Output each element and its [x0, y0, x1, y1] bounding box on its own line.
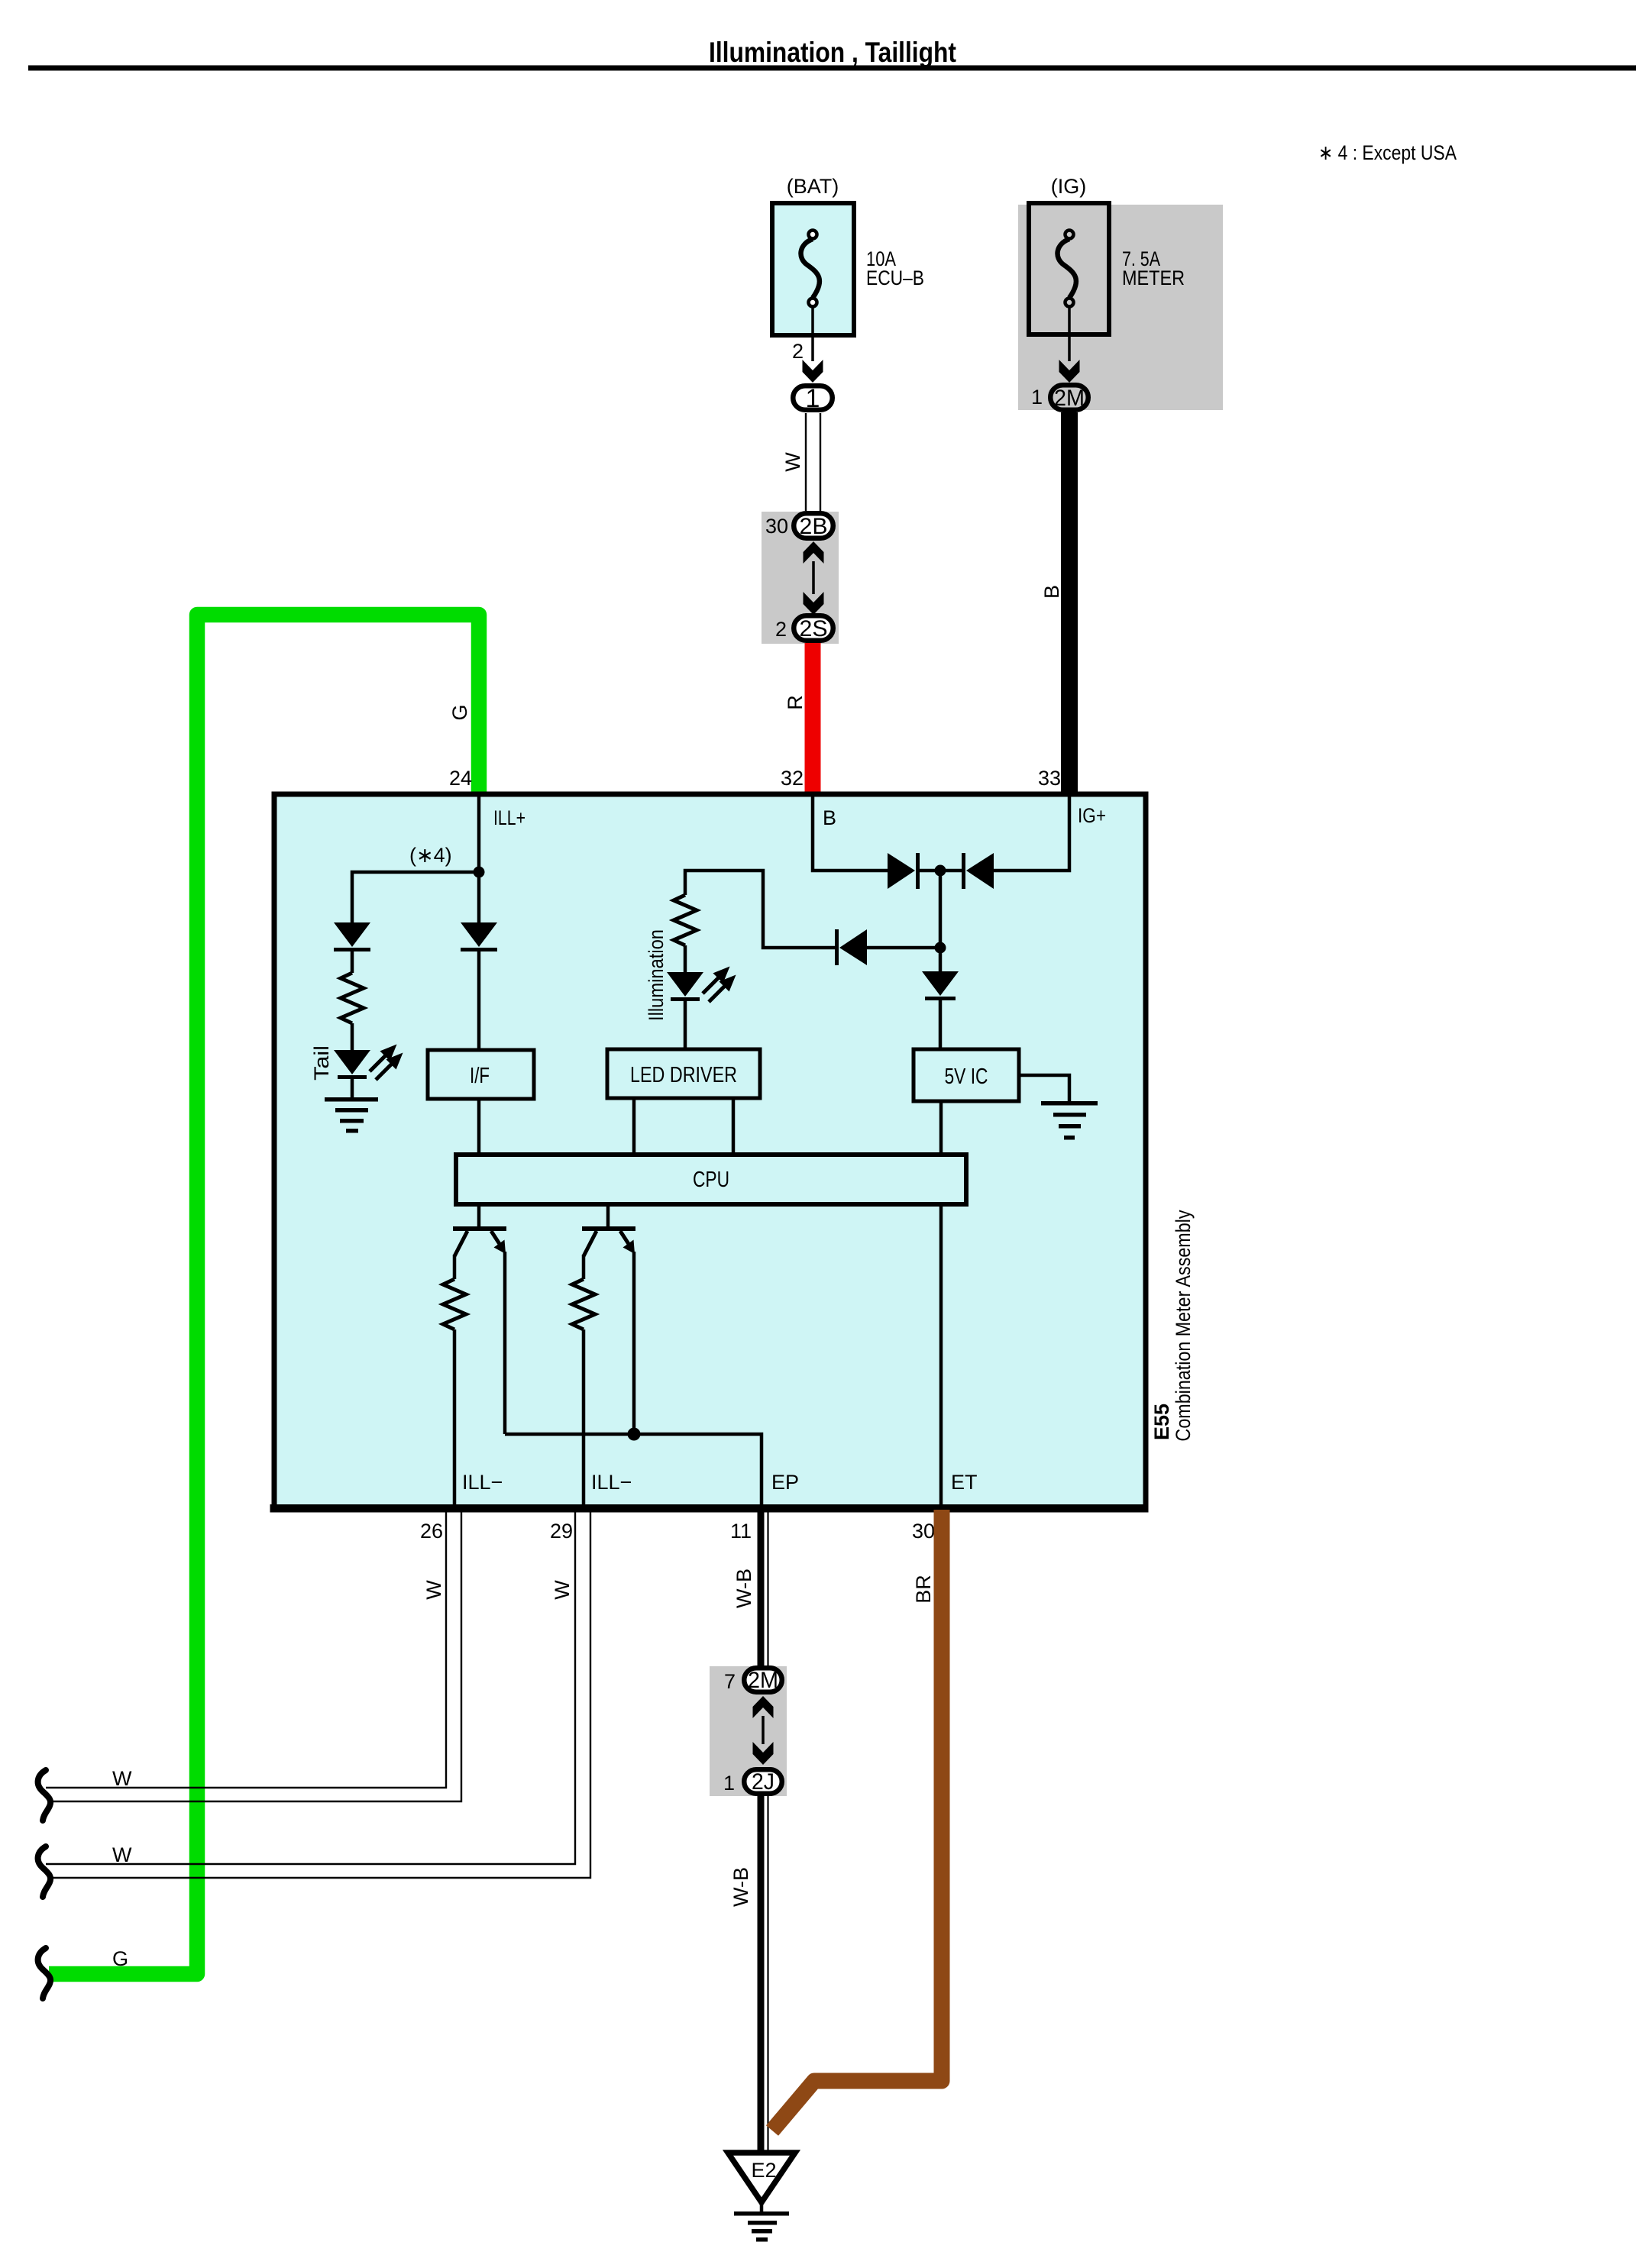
junction arrows 2B-2S: [804, 541, 824, 564]
wire Q2 collector to resistor: [582, 1255, 586, 1279]
svg-text:2M: 2M: [748, 1668, 778, 1693]
fuse METER element: [1058, 231, 1076, 307]
svg-text:24: 24: [449, 767, 472, 790]
break symbol 2: [38, 1846, 51, 1897]
LED Tail arrows: [370, 1048, 399, 1080]
svg-text:E2: E2: [751, 2159, 776, 2182]
wire W-B pin11 lower: [761, 1796, 768, 2153]
svg-text:G: G: [112, 1947, 128, 1970]
box LED DRIVER: [607, 1049, 760, 1098]
svg-text:∗ 4 : Except USA: ∗ 4 : Except USA: [1318, 141, 1457, 164]
E55 box bottom edge emphasis: [270, 1504, 1149, 1513]
svg-text:W: W: [422, 1580, 445, 1600]
svg-text:E55: E55: [1150, 1404, 1173, 1440]
wire BR brown: [772, 1510, 942, 2131]
connector oval 2S: [794, 615, 833, 641]
connector oval 2B: [794, 513, 833, 538]
svg-text:1: 1: [723, 1772, 735, 1795]
diode D2 I/F branch: [461, 922, 497, 951]
resistor R2: [572, 1279, 595, 1329]
wire ILL+ internal: [477, 794, 481, 872]
E55 combination meter box: [274, 794, 1146, 1510]
svg-text:33: 33: [1038, 767, 1061, 790]
LED illumination arrows: [703, 970, 732, 1002]
transistor Q2 base: [606, 1204, 610, 1228]
wire to 5V IC: [939, 1000, 943, 1049]
wire W from connector 1 to 2B: [806, 413, 820, 511]
wire: [351, 1079, 354, 1097]
wire Q1 emitter down: [503, 1252, 507, 1434]
break symbol 3: [38, 1948, 51, 1998]
wire: [351, 1023, 354, 1050]
svg-text:7: 7: [724, 1670, 736, 1693]
svg-text:IG+: IG+: [1078, 804, 1106, 827]
wire: [351, 951, 354, 973]
box I/F: [428, 1050, 534, 1099]
wire emitter bus to EP: [505, 1434, 762, 1507]
svg-text:2M: 2M: [1054, 386, 1085, 411]
svg-text:Illumination , Taillight: Illumination , Taillight: [709, 37, 956, 68]
connector oval 1: [793, 386, 833, 410]
resistor illumination: [674, 895, 697, 945]
svg-text:2B: 2B: [800, 514, 828, 539]
node junction diodes: [935, 865, 946, 877]
transistor Q1 base: [477, 1204, 481, 1228]
ground 5V IC: [1041, 1101, 1098, 1140]
gray panel behind 2M/2J junction: [710, 1666, 787, 1796]
svg-text:G: G: [448, 704, 471, 720]
svg-text:1: 1: [1031, 386, 1043, 409]
wire W pin26: [46, 1510, 461, 1801]
svg-text:2: 2: [775, 618, 787, 641]
svg-text:W: W: [551, 1580, 574, 1600]
svg-text:Illumination: Illumination: [645, 929, 668, 1021]
wire to tail branch: [352, 872, 479, 922]
svg-text:W: W: [112, 1843, 132, 1866]
wire W pin29: [46, 1510, 590, 1878]
break symbol 1: [38, 1770, 51, 1821]
wire R red: [805, 643, 821, 794]
diode D5 left-pointing to illumination: [835, 929, 867, 965]
wire: [920, 869, 965, 873]
svg-text:W: W: [112, 1767, 132, 1790]
gray panel behind METER fuse: [1018, 205, 1223, 410]
connector oval 2M: [1050, 385, 1088, 410]
svg-text:I/F: I/F: [470, 1064, 490, 1088]
svg-text:5V IC: 5V IC: [945, 1065, 988, 1089]
arrow into connector 2M: [1059, 360, 1080, 383]
transistor Q2: [582, 1226, 635, 1256]
ground E2 stem: [760, 2202, 764, 2213]
svg-text:R: R: [784, 695, 807, 710]
LED illumination: [667, 972, 703, 1001]
svg-text:2J: 2J: [752, 1769, 774, 1795]
wire G green: [49, 615, 479, 1974]
svg-text:EP: EP: [771, 1471, 799, 1494]
diode D3 right-pointing: [888, 853, 920, 889]
wire illumination top: [685, 871, 836, 948]
fuse ECU-B element: [801, 231, 820, 307]
wire: [684, 945, 687, 972]
svg-text:ECU–B: ECU–B: [866, 267, 924, 289]
svg-text:32: 32: [781, 767, 804, 790]
transistor Q1: [453, 1226, 506, 1256]
box CPU: [456, 1155, 966, 1204]
svg-text:(IG): (IG): [1051, 175, 1087, 198]
resistor tail: [341, 973, 364, 1023]
svg-text:B: B: [1040, 585, 1063, 599]
wire I/F to CPU: [477, 1099, 481, 1155]
wire: [477, 951, 481, 1050]
svg-text:W-B: W-B: [729, 1867, 752, 1907]
wire fuse ECU-B lead: [811, 307, 814, 361]
wire B internal: [813, 794, 888, 871]
svg-text:29: 29: [550, 1520, 573, 1543]
wire fuse METER lead: [1068, 307, 1071, 361]
svg-text:Combination Meter Assembly: Combination Meter Assembly: [1172, 1210, 1195, 1441]
svg-text:2S: 2S: [800, 616, 828, 641]
svg-text:(∗4): (∗4): [409, 844, 452, 867]
wire IG+ internal: [994, 794, 1069, 871]
node junction ILL+: [474, 867, 485, 878]
wire junction to junction: [939, 871, 943, 948]
title rule: [28, 66, 1636, 71]
resistor R1: [443, 1279, 466, 1329]
ground tail: [325, 1097, 378, 1133]
svg-text:ILL+: ILL+: [493, 806, 525, 829]
svg-text:W-B: W-B: [732, 1569, 755, 1608]
node junction emitter bus: [628, 1428, 641, 1441]
svg-text:METER: METER: [1122, 267, 1185, 289]
diode D1 tail branch: [334, 922, 370, 951]
svg-text:ILL−: ILL−: [591, 1471, 632, 1494]
wire Q1 collector to resistor: [453, 1255, 457, 1279]
svg-text:W: W: [781, 452, 804, 472]
svg-text:CPU: CPU: [693, 1168, 729, 1192]
wire R2 to pin 29: [582, 1329, 586, 1507]
diode D6 down-pointing: [922, 971, 959, 1000]
svg-text:11: 11: [730, 1520, 752, 1543]
diode D4 left-pointing: [962, 853, 994, 889]
svg-text:ILL−: ILL−: [462, 1471, 503, 1494]
ground E2 triangle: [728, 2153, 795, 2202]
svg-text:26: 26: [420, 1520, 443, 1543]
node junction 2: [935, 942, 946, 954]
svg-text:Tail: Tail: [310, 1045, 333, 1081]
connector oval 2M lower: [744, 1668, 782, 1692]
gray panel behind 2B/2S junction: [762, 512, 839, 644]
svg-text:(BAT): (BAT): [787, 175, 839, 198]
wire diode to junction2: [867, 946, 940, 950]
svg-text:ET: ET: [951, 1471, 978, 1494]
arrow into connector 1: [803, 360, 823, 383]
fuse ECU-B box: [772, 203, 854, 335]
svg-text:30: 30: [765, 515, 788, 538]
wire LED to LED DRIVER: [684, 1001, 687, 1049]
LED Tail: [334, 1050, 370, 1079]
junction arrows 2M-2J: [753, 1696, 774, 1718]
svg-text:BR: BR: [912, 1575, 935, 1604]
connector oval 2J: [744, 1769, 782, 1794]
wire I/F branch: [477, 872, 481, 922]
svg-text:B: B: [823, 806, 836, 829]
svg-text:2: 2: [792, 340, 804, 363]
wire junction2 down: [939, 948, 943, 971]
box 5V IC: [914, 1049, 1019, 1101]
fuse METER box: [1029, 203, 1109, 334]
wire 5V IC to ET (behind CPU): [939, 1098, 943, 1507]
wire W-B pin11 upper: [761, 1510, 768, 1668]
wire B black: [1061, 412, 1078, 794]
wires LED DRIVER to CPU: [632, 1098, 636, 1155]
svg-text:LED DRIVER: LED DRIVER: [630, 1063, 737, 1087]
wire Q2 emitter down: [632, 1252, 636, 1434]
wire 5V IC to ground: [1019, 1075, 1069, 1102]
svg-text:30: 30: [912, 1520, 935, 1543]
svg-text:1: 1: [806, 384, 820, 413]
ground E2 bars: [734, 2211, 789, 2242]
wire R1 to pin 26: [453, 1329, 457, 1507]
